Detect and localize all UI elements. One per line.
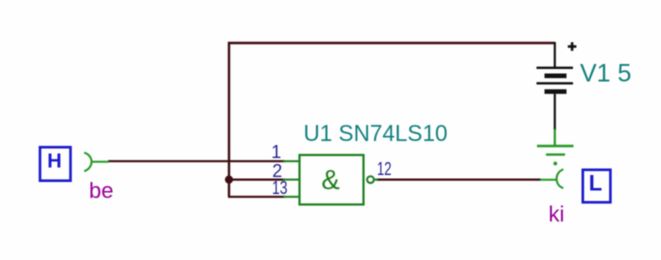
svg-text:1: 1: [271, 142, 281, 162]
pin 12 stub: [374, 179, 378, 181]
connector L jumper arc: [557, 169, 564, 188]
connector H jumper arc: [84, 153, 91, 172]
battery wire bottom: [554, 94, 556, 130]
ground lead: [554, 129, 556, 146]
wire bottom to pin 13: [228, 196, 285, 198]
pin 13 stub: [283, 196, 299, 198]
battery V1 wire top: [554, 42, 556, 67]
svg-text:H: H: [47, 151, 61, 173]
svg-text:13: 13: [272, 178, 288, 198]
svg-text:V1 5: V1 5: [580, 60, 631, 88]
svg-text:ki: ki: [549, 202, 565, 227]
connector H lead: [92, 161, 110, 163]
wire top rail from node A to battery +: [229, 43, 555, 197]
svg-text:be: be: [89, 178, 113, 203]
connector H box: [40, 147, 71, 181]
svg-text:&: &: [321, 164, 339, 195]
svg-text:L: L: [589, 171, 602, 196]
op U1 gate body: [300, 155, 364, 205]
battery plate short 1: [545, 74, 567, 79]
battery plate long 1: [537, 67, 574, 69]
svg-text:12: 12: [377, 159, 392, 179]
wire gate output to L connector: [376, 179, 541, 181]
ground bar 1: [537, 145, 574, 147]
connector L box: [583, 170, 611, 203]
wire H input to pin 1: [108, 160, 285, 162]
connector L lead: [540, 179, 558, 181]
svg-text:U1 SN74LS10: U1 SN74LS10: [304, 120, 448, 146]
battery plate long 2: [537, 82, 574, 84]
pin 2 stub: [283, 179, 299, 181]
ground dot: [553, 162, 557, 166]
battery plate short 2: [545, 89, 567, 94]
pin 12 bubble: [367, 176, 374, 183]
ground bar 2: [546, 153, 565, 155]
battery plus sign: [568, 45, 577, 48]
wire node A to pin 2: [229, 179, 285, 181]
junction node A: [225, 176, 233, 184]
pin 1 stub: [283, 160, 299, 162]
